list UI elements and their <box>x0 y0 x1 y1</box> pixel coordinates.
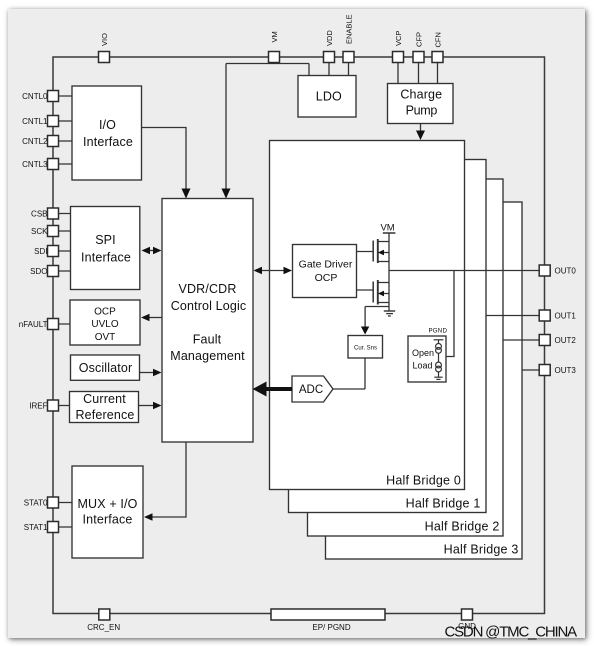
svg-text:VDR/CDR: VDR/CDR <box>179 282 237 296</box>
svg-text:VM: VM <box>270 31 279 42</box>
svg-text:VCP: VCP <box>394 31 403 46</box>
svg-text:SDI: SDI <box>34 247 47 256</box>
svg-text:ADC: ADC <box>299 384 323 396</box>
svg-text:Load: Load <box>412 361 432 371</box>
svg-text:Half Bridge 1: Half Bridge 1 <box>406 497 481 511</box>
svg-text:UVLO: UVLO <box>91 319 118 330</box>
svg-text:CNTL0: CNTL0 <box>22 92 48 101</box>
svg-text:SPI: SPI <box>95 233 116 247</box>
svg-text:Gate Driver: Gate Driver <box>299 258 353 270</box>
svg-text:Interface: Interface <box>81 251 131 265</box>
svg-text:Reference: Reference <box>75 408 134 422</box>
svg-text:Charge: Charge <box>400 88 442 102</box>
svg-text:CNTL1: CNTL1 <box>22 117 48 126</box>
svg-text:OCP: OCP <box>315 272 338 284</box>
svg-text:Current: Current <box>83 392 126 406</box>
svg-text:LDO: LDO <box>316 90 342 104</box>
svg-text:Management: Management <box>170 349 245 363</box>
svg-text:Oscillator: Oscillator <box>79 361 133 375</box>
svg-text:MUX + I/O: MUX + I/O <box>77 497 137 511</box>
svg-text:Interface: Interface <box>83 513 133 527</box>
svg-text:OCP: OCP <box>94 307 116 318</box>
svg-text:Half Bridge 3: Half Bridge 3 <box>444 543 519 557</box>
svg-text:STAT1: STAT1 <box>24 523 48 532</box>
svg-text:CSB: CSB <box>31 209 47 218</box>
svg-text:Pump: Pump <box>406 104 438 118</box>
svg-text:ENABLE: ENABLE <box>344 14 353 44</box>
svg-text:CSDN @TMC_CHINA: CSDN @TMC_CHINA <box>445 624 578 641</box>
svg-text:Cur. Sns: Cur. Sns <box>354 346 377 352</box>
svg-text:VDD: VDD <box>325 30 334 46</box>
svg-text:SCK: SCK <box>31 227 48 236</box>
svg-text:OUT2: OUT2 <box>555 336 577 345</box>
svg-text:I/O: I/O <box>99 118 116 132</box>
svg-text:Half Bridge 2: Half Bridge 2 <box>425 520 500 534</box>
svg-text:Fault: Fault <box>193 333 222 347</box>
svg-text:OVT: OVT <box>95 332 116 343</box>
svg-text:IREF: IREF <box>29 401 47 410</box>
svg-text:STAT0: STAT0 <box>24 498 48 507</box>
svg-text:Interface: Interface <box>83 135 133 149</box>
svg-text:Control Logic: Control Logic <box>171 299 247 313</box>
svg-text:CNTL2: CNTL2 <box>22 137 48 146</box>
svg-text:CFP: CFP <box>414 32 423 47</box>
svg-text:nFAULT: nFAULT <box>19 320 48 329</box>
svg-text:OUT0: OUT0 <box>555 266 577 275</box>
svg-text:OUT3: OUT3 <box>555 366 577 375</box>
svg-text:VM: VM <box>380 223 394 234</box>
svg-text:CNTL3: CNTL3 <box>22 160 48 169</box>
svg-text:Open: Open <box>412 348 434 358</box>
svg-text:PGND: PGND <box>428 328 447 335</box>
svg-text:CFN: CFN <box>433 32 442 47</box>
svg-text:CRC_EN: CRC_EN <box>87 623 120 632</box>
svg-text:OUT1: OUT1 <box>555 311 577 320</box>
svg-text:VIO: VIO <box>100 33 109 46</box>
svg-text:EP/ PGND: EP/ PGND <box>312 623 350 632</box>
svg-text:SDO: SDO <box>30 267 47 276</box>
svg-text:Half Bridge 0: Half Bridge 0 <box>386 474 461 488</box>
